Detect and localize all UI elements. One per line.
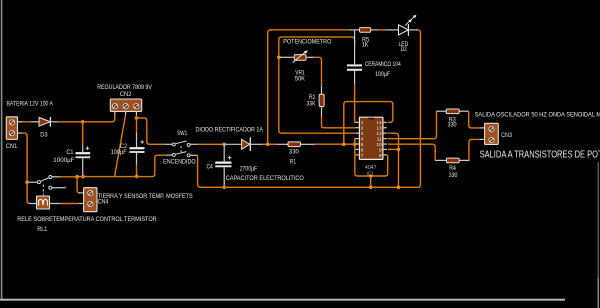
resistor R3 left lead [437,110,447,112]
svg-text:POTENCIOMETRO: POTENCIOMETRO [283,39,331,46]
IC IC1 pin 12 stub [383,132,387,134]
wire ground rail corner up to SW1 bottom [152,155,165,176]
svg-text:10: 10 [376,142,382,147]
IC IC1 pin 14 stub [383,121,387,123]
svg-text:D3: D3 [40,132,48,139]
wire CN2 pin3 to SW1 [137,118,165,144]
wire CN1 pin2 down to relay [22,133,27,182]
IC IC1 pin 7 stub [356,154,360,156]
switch SW1 pole2 right lead [190,154,197,156]
wire SW1 to C4 node [197,143,224,145]
capacitor C4 [215,162,231,164]
resistor R5 right lead [371,29,378,31]
svg-text:CAPACITOR ELECTROLITICO: CAPACITOR ELECTROLITICO [226,175,304,182]
wire R4 to CN3 pin2 [469,139,479,160]
svg-text:SALIDA OSCILADOR 50 HZ ONDA SE: SALIDA OSCILADOR 50 HZ ONDA SENOIDAL MO [475,112,600,119]
wire IC pin1 stub-join [355,121,356,123]
svg-text:100µF: 100µF [375,71,390,78]
wire relay throw1 to ground rail [61,176,78,178]
LED D2 anode lead [386,29,399,31]
wire CN4 pin2 stub [79,203,84,205]
switch SW1 gang dashed link [180,146,182,153]
resistor R3 [446,109,459,114]
wire CN2 pin3 stub [135,111,137,115]
wire IC pin9 to junction [388,148,399,150]
IC IC1 pin 10 stub [383,143,387,145]
connector CN2 regulator [110,99,141,111]
LED D2 [399,25,409,35]
wire C2 bottom to ground rail [136,165,138,177]
potentiometer VR1 right lead [306,56,314,58]
resistor R4 left lead [435,159,446,161]
resistor R2 [319,94,324,106]
diode D1 rectifier [242,139,250,149]
IC IC1 notch [368,118,374,120]
capacitor C2 [130,147,145,149]
wire pot box top edge [282,37,355,44]
relay RL1 throw2 stub [52,187,66,189]
switch SW1 pole2 right contact [187,154,190,157]
IC IC1 pin 9 stub [383,148,387,150]
wire R2 bottom to IC pin2 [322,117,356,128]
relay RL1 throw1 contact [49,176,52,179]
resistor R2 top lead [321,86,323,95]
switch SW1 pole1 left contact [172,143,175,146]
wire bottom ground rail [200,186,417,188]
connector CN3 [485,123,499,144]
node bottom rail IC junction [369,186,373,190]
wire SW1 pole2 down to bottom rail [197,155,205,187]
wire IC pin12 to down wire [388,133,399,149]
relay RL1 coil left lead [30,203,37,205]
node A junction D3/C1 [81,120,85,124]
svg-text:1: 1 [361,120,364,125]
resistor R5 [360,28,371,33]
capacitor ceramic [347,64,362,66]
svg-text:C1: C1 [66,149,73,156]
svg-text:REGULADOR 7809 9V: REGULADOR 7809 9V [97,84,152,91]
svg-text:5: 5 [361,142,364,147]
resistor R3 right lead [459,110,469,112]
capacitor C2 top lead [136,133,138,148]
wire IC pin3 wire horizontal [283,132,356,134]
node C1-ground rail junction [81,175,85,179]
svg-text:D2: D2 [401,46,407,53]
svg-text:CN2: CN2 [120,91,132,98]
potentiometer VR1 left lead [280,56,295,58]
wire top rail [270,29,350,31]
wire VR1 right to R2 top [314,57,322,85]
node C2 ground junction [135,175,139,179]
svg-text:1000µF: 1000µF [53,157,74,164]
relay RL1 lever [40,177,50,181]
node C4 ground junction [222,186,226,190]
diode D3 [39,117,50,126]
svg-text:CERAMICO 104: CERAMICO 104 [365,61,401,68]
svg-text:7: 7 [361,153,364,158]
IC IC1 pin 6 stub [356,148,360,150]
capacitor C1 [76,152,91,154]
svg-text:ENCENDIDO: ENCENDIDO [163,158,196,165]
svg-text:SW1: SW1 [177,130,188,137]
capacitor C2 plus sign [140,140,144,144]
connector CN4 [84,188,97,212]
sheet border right edge partial [597,162,599,308]
IC IC1 pin 5 stub [356,143,360,145]
wire IC pin10 to R4 [388,144,436,160]
relay RL1 common contact [37,181,40,184]
capacitor ceramic bottom lead [354,71,356,84]
wire CN3 pin2 stub [479,138,484,140]
relay RL1 coil right lead [50,203,61,205]
switch SW1 pole1 right contact [187,143,190,146]
capacitor ceramic top lead [354,31,356,65]
capacitor C1 bottom lead [82,158,84,175]
capacitor C1 top lead [82,146,84,152]
node IC pin5 wire junction left [342,142,346,146]
switch SW1 pole2 lever [175,152,186,155]
svg-text:SALIDA A TRANSISTORES DE POTEN: SALIDA A TRANSISTORES DE POTENCIA [480,149,600,160]
wire CN2 pin1 stub [114,111,116,115]
svg-text:4047: 4047 [365,165,377,171]
wire R3 to CN3 pin1 [468,111,479,128]
switch SW1 pole1 left lead [165,143,172,145]
switch SW1 pole1 lever [175,141,186,144]
IC IC1 pin 13 stub [383,127,387,129]
wire CN1 pin1 to D3 [23,121,32,123]
relay RL1 actuator dashed link [42,185,44,196]
svg-text:9: 9 [379,147,382,152]
wire pot box left edge down to IC pin3 wire [279,37,285,133]
capacitor C2 bottom lead [136,153,138,165]
wire D1 to node B [263,143,278,145]
svg-text:8: 8 [379,153,382,158]
svg-text:CN4: CN4 [98,199,109,206]
node relay common junction [25,181,29,185]
capacitor C4 bottom lead [223,167,225,186]
LED D2 cathode lead [409,29,418,31]
node B junction main rail to top rail [266,143,270,147]
svg-text:50K: 50K [295,76,306,83]
svg-text:TIERRA Y SENSOR TEMP. MOSFETS: TIERRA Y SENSOR TEMP. MOSFETS [98,193,193,200]
wire IC pin14 loop over IC [344,102,393,145]
switch SW1 pole2 left contact [172,153,175,156]
wire IC pin4 jog [354,139,357,145]
svg-text:330: 330 [449,172,458,179]
wire pin9 junction down to bottom rail [398,149,400,187]
diode D1 cathode lead [251,143,263,145]
svg-text:RL1: RL1 [37,226,47,233]
capacitor C1 top wire [82,122,84,146]
diode D3 anode lead [31,121,39,123]
wire R5 to LED [378,29,386,31]
svg-text:100µF: 100µF [111,149,127,156]
IC IC1 pin 3 stub [356,132,360,134]
sheet border bottom edge [0,299,565,301]
node bottom rail pin9 junction [397,186,401,190]
capacitor C1 plus sign [86,146,90,150]
node C4 top junction [222,143,226,147]
resistor R5 left lead [350,29,360,31]
IC IC1 pin 11 stub [383,138,387,140]
resistor R1 left lead [277,143,288,145]
potentiometer VR1 wiper arrow [293,51,307,62]
wire ground rail left section [77,176,152,178]
IC IC1 body [359,117,383,159]
resistor R4 [447,158,460,163]
wire rail up to CN2 pin1 [111,116,115,122]
capacitor C4 plus sign [228,156,232,160]
node IC pin9-pin12 junction [397,148,401,152]
IC IC1 pin 4 stub [356,138,360,140]
resistor R4 right lead [459,159,470,161]
wire under-IC junction to bottom rail [370,176,372,187]
node IC pin4 wire junction [353,142,357,146]
relay RL1 throw2 contact [49,186,52,189]
wire CN3 pin1 stub [479,127,484,129]
wire ceramic down to IC pin1 [355,84,357,122]
wire LED down to bottom rail [417,30,421,187]
wire CN2 pin3 down to C2 [136,118,138,133]
wire CN1 pin1 stub [18,121,23,123]
svg-text:13: 13 [376,126,382,131]
svg-text:33K: 33K [306,101,316,108]
wire CN1 pin2 stub [18,132,23,134]
svg-text:IC1: IC1 [367,172,374,178]
node CN2 pin3 junction [135,116,139,120]
svg-text:CN1: CN1 [6,143,18,150]
capacitor C4 top lead [223,144,225,161]
resistor R1 [288,142,301,147]
wire ground rail down to CN4 pin1 [77,177,80,193]
IC IC1 pin 1 stub [356,121,360,123]
svg-text:R1: R1 [290,158,297,165]
node VR1 left junction [277,56,281,60]
diode D1 anode lead [226,143,242,145]
switch SW1 pole2 left lead [165,154,172,156]
sheet border left edge [1,0,3,300]
svg-text:14: 14 [376,120,382,125]
svg-text:3: 3 [361,131,364,136]
svg-text:2700µF: 2700µF [240,165,258,172]
svg-text:1K: 1K [362,42,369,49]
node ground rail relay junction [75,175,79,179]
resistor R2 bottom lead [321,107,323,117]
svg-text:RELE SOBRETEMPERATURA CONTROL: RELE SOBRETEMPERATURA CONTROL TERMISTOR [17,216,157,223]
svg-text:12: 12 [376,131,382,136]
svg-text:330: 330 [448,122,458,129]
wire coil to CN4 pin2 [61,203,79,205]
wire relay throw1 lead [52,176,61,178]
resistor R1 right lead [301,143,316,145]
connector CN1 [6,117,17,140]
relay RL1 common lead [29,181,38,183]
relay RL1 coil [37,196,50,209]
wire node B up to top rail [268,30,273,145]
IC IC1 pin 8 stub [383,154,387,156]
wire R1 to IC pin5 [315,143,356,145]
wire CN2 pin2 stub [125,111,127,115]
wire IC pin7 loop under IC [355,144,388,176]
svg-text:C4: C4 [207,163,214,170]
LED D2 emission arrows [405,15,416,26]
potentiometer VR1 [294,55,306,61]
IC IC1 pin 2 stub [356,127,360,129]
wire CN2 pin2 diagonal to ground rail [115,116,126,177]
svg-text:DIODO RECTIFICADOR 1A: DIODO RECTIFICADOR 1A [196,127,264,134]
wire D3 to node A rail [59,121,111,123]
svg-text:BATERIA 12V 100 A: BATERIA 12V 100 A [7,100,54,107]
switch SW1 pole1 right lead [190,143,197,145]
svg-text:6: 6 [361,147,364,152]
diode D3 cathode lead [51,121,58,123]
svg-text:330: 330 [289,149,299,156]
svg-text:4: 4 [361,136,364,141]
node under-IC junction [369,174,373,178]
wire relay junction down to coil [27,182,30,203]
wire IC pin11 to R3 [388,111,437,139]
svg-text:2: 2 [361,126,364,131]
svg-text:CN3: CN3 [501,132,512,139]
svg-text:11: 11 [377,136,382,141]
wire CN4 pin1 stub [79,192,84,194]
